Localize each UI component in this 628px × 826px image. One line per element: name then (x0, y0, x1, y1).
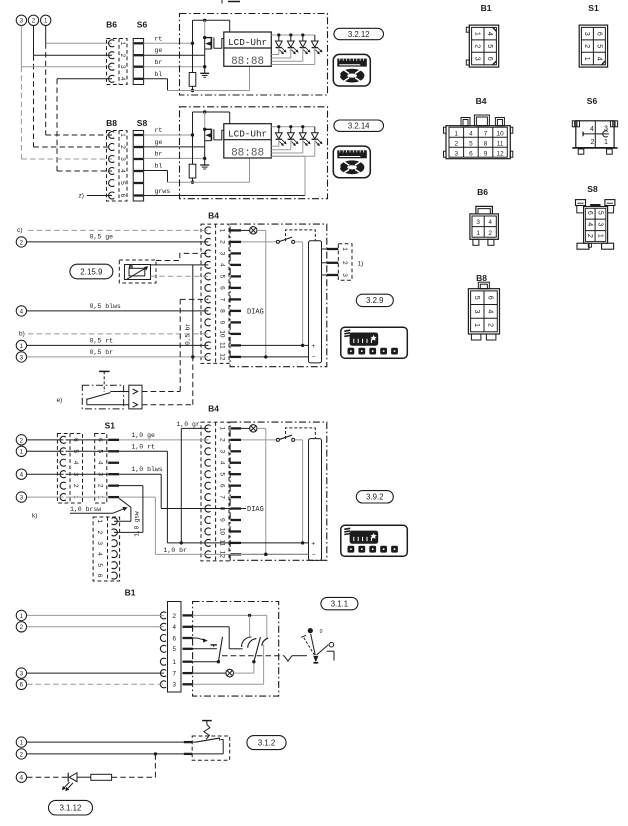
svg-text:1: 1 (583, 57, 590, 61)
svg-text:1: 1 (473, 323, 480, 327)
svg-text:k): k) (32, 513, 37, 520)
svg-text:rt: rt (155, 35, 163, 42)
svg-text:2: 2 (20, 624, 24, 631)
svg-text:B4: B4 (208, 404, 219, 414)
svg-text:6: 6 (218, 484, 225, 488)
svg-text:5: 5 (473, 296, 480, 300)
svg-text:1: 1 (597, 234, 604, 238)
svg-text:−: − (312, 552, 316, 559)
svg-text:1: 1 (44, 18, 48, 25)
svg-text:4: 4 (218, 461, 225, 465)
svg-text:11: 11 (497, 140, 504, 147)
svg-text:3: 3 (119, 65, 126, 69)
svg-text:7: 7 (484, 130, 488, 137)
svg-text:4: 4 (487, 309, 494, 313)
svg-text:−: − (312, 354, 316, 361)
svg-text:6: 6 (96, 574, 103, 578)
svg-text:3: 3 (476, 219, 480, 226)
svg-text:5: 5 (218, 275, 225, 279)
svg-text:0,5 ge: 0,5 ge (90, 234, 114, 241)
svg-text:2: 2 (96, 531, 103, 535)
svg-text:2: 2 (20, 751, 24, 758)
svg-text:b): b) (19, 331, 25, 338)
svg-text:br: br (155, 151, 163, 158)
svg-text:8: 8 (484, 140, 488, 147)
svg-text:3.1.1: 3.1.1 (331, 599, 348, 608)
svg-text:2.15.9: 2.15.9 (80, 267, 103, 276)
svg-text:3: 3 (20, 18, 24, 25)
svg-text:9: 9 (484, 150, 488, 157)
svg-text:S8: S8 (137, 118, 148, 128)
svg-text:+: + (311, 343, 315, 350)
svg-text:5: 5 (96, 563, 103, 567)
svg-text:6: 6 (172, 635, 176, 642)
svg-text:DIAG: DIAG (247, 506, 264, 514)
svg-text:5: 5 (597, 211, 604, 215)
svg-text:ge: ge (155, 139, 163, 146)
svg-text:6: 6 (20, 682, 24, 689)
svg-text:LCD-Uhr: LCD-Uhr (228, 129, 267, 140)
svg-text:1,0 gsw: 1,0 gsw (134, 511, 141, 537)
svg-text:bl: bl (155, 71, 163, 78)
svg-text:1: 1 (474, 32, 481, 36)
svg-text:br: br (155, 59, 163, 66)
svg-text:3: 3 (473, 309, 480, 313)
svg-text:+: + (311, 541, 315, 548)
svg-text:z): z) (79, 192, 84, 199)
svg-text:2: 2 (119, 145, 126, 149)
svg-text:c): c) (17, 227, 22, 234)
svg-text:4: 4 (20, 308, 24, 315)
svg-text:1: 1 (20, 613, 24, 620)
svg-text:10: 10 (218, 528, 225, 536)
svg-text:5: 5 (218, 472, 225, 476)
svg-text:B6: B6 (106, 20, 117, 30)
svg-text:1: 1 (20, 740, 24, 747)
svg-text:2: 2 (487, 323, 494, 327)
svg-text:88:88: 88:88 (231, 148, 264, 160)
svg-text:1,0 ge: 1,0 ge (132, 432, 156, 439)
svg-text:1,0 blws: 1,0 blws (132, 466, 163, 473)
svg-text:S6: S6 (587, 96, 598, 106)
svg-text:2: 2 (341, 261, 348, 265)
svg-text:10: 10 (218, 330, 225, 338)
svg-text:3: 3 (597, 222, 604, 226)
svg-text:3: 3 (20, 495, 24, 502)
svg-text:B8: B8 (476, 273, 487, 283)
svg-text:4: 4 (590, 126, 594, 133)
svg-text:3: 3 (172, 682, 176, 689)
svg-text:0,5 rt: 0,5 rt (90, 337, 114, 344)
svg-text:1: 1 (604, 139, 608, 146)
svg-text:2: 2 (172, 613, 176, 620)
svg-text:1,0 brsw: 1,0 brsw (70, 506, 101, 513)
svg-text:0,5 blws: 0,5 blws (90, 303, 121, 310)
svg-text:3.2.9: 3.2.9 (366, 296, 383, 305)
svg-text:3: 3 (96, 541, 103, 545)
svg-text:5: 5 (486, 44, 493, 48)
svg-text:7: 7 (218, 495, 225, 499)
svg-text:0: 0 (320, 629, 323, 635)
svg-text:12: 12 (218, 353, 225, 361)
svg-text:bl: bl (155, 163, 163, 170)
svg-text:3: 3 (583, 32, 590, 36)
svg-text:4: 4 (97, 461, 104, 465)
svg-text:6: 6 (487, 296, 494, 300)
svg-text:S1: S1 (588, 3, 599, 13)
svg-text:B1: B1 (481, 3, 492, 13)
svg-text:4: 4 (469, 130, 473, 137)
svg-text:1: 1 (218, 229, 225, 233)
svg-text:B6: B6 (477, 187, 488, 197)
svg-text:3: 3 (218, 252, 225, 256)
svg-text:88:88: 88:88 (231, 56, 264, 68)
svg-text:8: 8 (218, 309, 225, 313)
svg-text:2: 2 (32, 18, 36, 25)
svg-text:6: 6 (469, 150, 473, 157)
svg-text:S8: S8 (587, 184, 598, 194)
svg-text:6: 6 (218, 286, 225, 290)
svg-text:2: 2 (591, 139, 595, 146)
svg-text:rt: rt (155, 127, 163, 134)
svg-text:4: 4 (96, 552, 103, 556)
svg-text:4: 4 (119, 169, 126, 173)
svg-text:10: 10 (497, 130, 505, 137)
svg-text:1: 1 (476, 230, 480, 237)
svg-text:S6: S6 (137, 20, 148, 30)
svg-text:B8: B8 (106, 118, 117, 128)
svg-text:ge: ge (155, 47, 163, 54)
svg-text:1,0 gr: 1,0 gr (176, 421, 200, 428)
svg-text:4: 4 (72, 461, 79, 465)
svg-text:2: 2 (218, 438, 225, 442)
svg-text:B4: B4 (208, 211, 219, 221)
svg-text:B1: B1 (125, 588, 136, 598)
svg-text:1: 1 (20, 449, 24, 456)
svg-text:5: 5 (119, 181, 126, 185)
svg-text:3: 3 (119, 157, 126, 161)
svg-text:11: 11 (218, 342, 225, 349)
svg-text:4: 4 (20, 775, 24, 782)
svg-text:4: 4 (20, 472, 24, 479)
svg-text:2: 2 (218, 240, 225, 244)
svg-text:4: 4 (586, 222, 593, 226)
svg-text:S1: S1 (105, 421, 116, 431)
svg-text:3.9.2: 3.9.2 (366, 493, 383, 502)
svg-text:1,0 br: 1,0 br (164, 547, 188, 554)
svg-text:2: 2 (20, 239, 24, 246)
svg-text:4: 4 (218, 263, 225, 267)
svg-text:3: 3 (218, 449, 225, 453)
svg-text:12: 12 (497, 150, 505, 157)
svg-text:3: 3 (455, 150, 459, 157)
svg-text:2: 2 (97, 484, 104, 488)
svg-text:4: 4 (172, 624, 176, 631)
svg-text:1: 1 (172, 659, 176, 666)
svg-text:4: 4 (488, 219, 492, 226)
svg-text:3.2.12: 3.2.12 (348, 30, 370, 39)
svg-text:1,0 rt: 1,0 rt (132, 443, 156, 450)
svg-text:2: 2 (474, 44, 481, 48)
svg-text:3.1.2: 3.1.2 (258, 738, 275, 747)
svg-text:2: 2 (119, 53, 126, 57)
svg-text:3: 3 (474, 57, 481, 61)
svg-text:3: 3 (20, 354, 24, 361)
svg-text:5: 5 (172, 646, 176, 653)
svg-text:LCD-Uhr: LCD-Uhr (228, 37, 267, 48)
svg-text:4: 4 (119, 77, 126, 81)
svg-text:2: 2 (488, 230, 492, 237)
svg-text:2: 2 (20, 437, 24, 444)
svg-text:e): e) (57, 397, 63, 404)
svg-text:6: 6 (586, 211, 593, 215)
svg-text:1: 1 (455, 130, 459, 137)
svg-text:9: 9 (218, 321, 225, 325)
svg-text:5: 5 (469, 140, 473, 147)
svg-text:B4: B4 (476, 96, 487, 106)
svg-text:2: 2 (455, 140, 459, 147)
svg-text:7: 7 (172, 671, 176, 678)
svg-text:3: 3 (20, 671, 24, 678)
svg-text:3: 3 (341, 273, 348, 277)
svg-text:0,5 br: 0,5 br (90, 349, 114, 356)
svg-text:4: 4 (595, 57, 602, 61)
svg-text:1: 1 (218, 427, 225, 431)
svg-text:1: 1 (119, 133, 126, 137)
svg-text:6: 6 (595, 32, 602, 36)
svg-text:4: 4 (486, 32, 493, 36)
svg-text:1: 1 (96, 519, 103, 523)
svg-text:2: 2 (72, 484, 79, 488)
svg-text:1): 1) (358, 260, 364, 267)
svg-text:5: 5 (595, 44, 602, 48)
svg-text:6: 6 (119, 194, 126, 198)
svg-text:7: 7 (218, 298, 225, 302)
svg-text:1: 1 (20, 343, 24, 350)
svg-text:2: 2 (586, 234, 593, 238)
svg-text:grws: grws (155, 188, 171, 195)
svg-text:6: 6 (486, 57, 493, 61)
svg-text:9: 9 (218, 518, 225, 522)
svg-text:1: 1 (341, 247, 348, 251)
svg-text:2: 2 (583, 44, 590, 48)
svg-text:3.1.12: 3.1.12 (60, 804, 82, 813)
svg-text:DIAG: DIAG (247, 309, 264, 317)
svg-text:3.2.14: 3.2.14 (348, 122, 370, 131)
svg-text:1: 1 (119, 41, 126, 45)
